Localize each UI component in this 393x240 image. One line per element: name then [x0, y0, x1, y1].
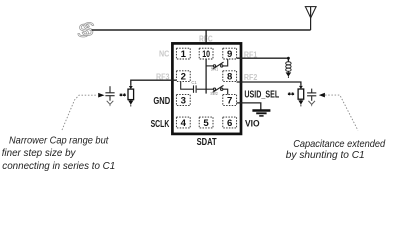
svg-text:connecting in series to C1: connecting in series to C1 — [2, 161, 115, 172]
pin 9 — [223, 48, 237, 60]
svg-text:9: 9 — [227, 49, 232, 60]
junction dot RF1 — [287, 57, 290, 60]
inductor (coil to ground on RF1) — [286, 62, 291, 72]
svg-text:VIO: VIO — [245, 118, 260, 128]
pin 4 — [176, 117, 190, 129]
pin 10 — [199, 48, 213, 60]
component body (RF2 shunt element) — [298, 89, 304, 99]
pin 6 — [223, 117, 237, 129]
pin 3 — [176, 95, 190, 107]
svg-text:C1: C1 — [191, 80, 197, 85]
ground arrow under RF2 component — [300, 99, 302, 100]
wire: RFC drop into IC — [205, 30, 207, 48]
ground arrow under RF3 component — [130, 99, 132, 102]
wire: internal center node from pin 10 — [205, 59, 207, 94]
svg-text:10: 10 — [202, 49, 210, 60]
svg-text:2: 2 — [181, 72, 186, 83]
wire USID_SEL (pin 7 to ground) — [237, 103, 261, 110]
svg-text:GND: GND — [153, 96, 170, 107]
svg-text:4: 4 — [181, 118, 187, 129]
svg-text:6: 6 — [227, 118, 232, 129]
pin 2 — [176, 71, 190, 83]
svg-text:5: 5 — [203, 118, 209, 129]
dashed pointer (left note to capacitor) — [62, 95, 98, 130]
svg-text:8: 8 — [227, 72, 233, 83]
capacitor (right shunt suggestion) — [307, 89, 316, 101]
component body (RF3 series element) — [128, 89, 134, 100]
switch SW2 (center node to pin 7) — [206, 85, 228, 94]
svg-text:USID_SEL: USID_SEL — [244, 90, 279, 101]
svg-text:SW1: SW1 — [211, 66, 219, 71]
ground (earth bars) — [252, 111, 270, 116]
footnote ** (left) — [120, 93, 126, 96]
wire RF2 (pin 8 to shunt leg) — [237, 82, 301, 86]
dashed pointer (right note to capacitor) — [325, 95, 358, 130]
IC U1 outline — [172, 43, 241, 133]
svg-text:Capacitance extended: Capacitance extended — [293, 139, 385, 150]
svg-text:S: S — [82, 19, 95, 40]
svg-text:by shunting to C1: by shunting to C1 — [286, 150, 365, 161]
arrowhead of left pointer — [98, 93, 104, 98]
svg-text:SW2: SW2 — [210, 91, 218, 96]
svg-text:RF2: RF2 — [244, 73, 258, 82]
svg-text:7: 7 — [227, 96, 232, 107]
svg-text:Narrower Cap range but: Narrower Cap range but — [9, 136, 109, 147]
pin 1 — [176, 48, 190, 60]
svg-text:SCLK: SCLK — [151, 119, 170, 130]
footnote ** (right) — [288, 92, 294, 95]
note: narrower cap range (left annotation) — [2, 136, 116, 172]
arrowhead into component (RF3 leg) — [129, 86, 133, 89]
antenna — [305, 7, 317, 30]
wire break squiggle — [77, 19, 94, 42]
switch SW1 (pin10 node to pin 9) — [206, 59, 228, 69]
svg-text:SDAT: SDAT — [197, 137, 218, 148]
capacitor C1 (pin 2 to center node) — [181, 82, 206, 93]
pin 7 — [223, 95, 237, 107]
note: capacitance extended (right annotation) — [286, 139, 386, 161]
wire RF1 (pin 9 to coil) — [237, 58, 289, 61]
svg-text:1: 1 — [181, 49, 187, 60]
svg-text:3: 3 — [181, 96, 186, 107]
arrowhead into component (RF2 leg) — [299, 86, 303, 89]
wire RF3 (pin 2 to shunt leg) — [131, 80, 177, 86]
pin 5 — [199, 117, 213, 129]
pin 8 — [223, 71, 237, 83]
svg-text:finer step size by: finer step size by — [2, 148, 77, 159]
arrowhead of right pointer — [319, 93, 325, 98]
ground chevron under right capacitor — [308, 101, 315, 105]
ground arrow under coil — [287, 71, 289, 72]
svg-text:NC: NC — [159, 50, 170, 59]
ground chevron under left capacitor — [107, 101, 114, 105]
wire: antenna feedline — [92, 29, 311, 31]
capacitor (left shunt suggestion) — [105, 86, 114, 101]
